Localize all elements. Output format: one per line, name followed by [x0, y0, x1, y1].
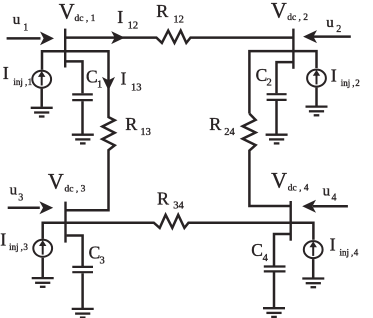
svg-text:u: u — [326, 15, 334, 31]
svg-text:u: u — [323, 184, 331, 200]
svg-text:V: V — [271, 0, 287, 23]
svg-text:inj,1: inj,1 — [13, 77, 32, 87]
svg-text:R: R — [157, 188, 169, 208]
svg-text:dc , 1: dc , 1 — [75, 14, 96, 24]
svg-text:12: 12 — [173, 14, 184, 25]
svg-text:I: I — [121, 68, 127, 88]
svg-text:C: C — [86, 66, 98, 86]
svg-text:inj,2: inj,2 — [341, 78, 360, 88]
svg-text:I: I — [0, 230, 6, 250]
svg-text:4: 4 — [263, 253, 269, 264]
svg-text:I: I — [3, 63, 9, 83]
svg-text:I: I — [330, 234, 336, 254]
svg-text:u: u — [13, 12, 21, 28]
svg-text:dc , 4: dc , 4 — [288, 184, 309, 194]
svg-text:R: R — [125, 114, 137, 134]
svg-text:inj,4: inj,4 — [340, 248, 359, 258]
svg-text:1: 1 — [23, 22, 28, 33]
svg-text:I: I — [331, 65, 337, 85]
svg-text:13: 13 — [131, 82, 142, 93]
svg-text:34: 34 — [173, 201, 184, 212]
svg-text:4: 4 — [332, 193, 337, 204]
svg-text:13: 13 — [140, 127, 151, 138]
svg-text:12: 12 — [128, 20, 139, 31]
svg-text:inj,3: inj,3 — [9, 242, 28, 252]
svg-text:V: V — [48, 168, 64, 193]
svg-text:2: 2 — [336, 24, 341, 35]
svg-text:R: R — [156, 1, 168, 21]
svg-text:V: V — [59, 0, 75, 24]
svg-text:I: I — [117, 7, 123, 27]
svg-text:dc , 3: dc , 3 — [65, 184, 86, 194]
svg-text:3: 3 — [100, 256, 105, 267]
svg-text:24: 24 — [224, 127, 235, 138]
svg-text:3: 3 — [18, 193, 23, 204]
svg-text:2: 2 — [267, 78, 272, 89]
svg-text:u: u — [10, 182, 18, 198]
svg-text:C: C — [251, 240, 263, 260]
svg-text:V: V — [271, 168, 287, 193]
svg-text:dc , 2: dc , 2 — [287, 13, 308, 23]
svg-text:R: R — [209, 114, 221, 134]
svg-text:1: 1 — [97, 80, 102, 91]
